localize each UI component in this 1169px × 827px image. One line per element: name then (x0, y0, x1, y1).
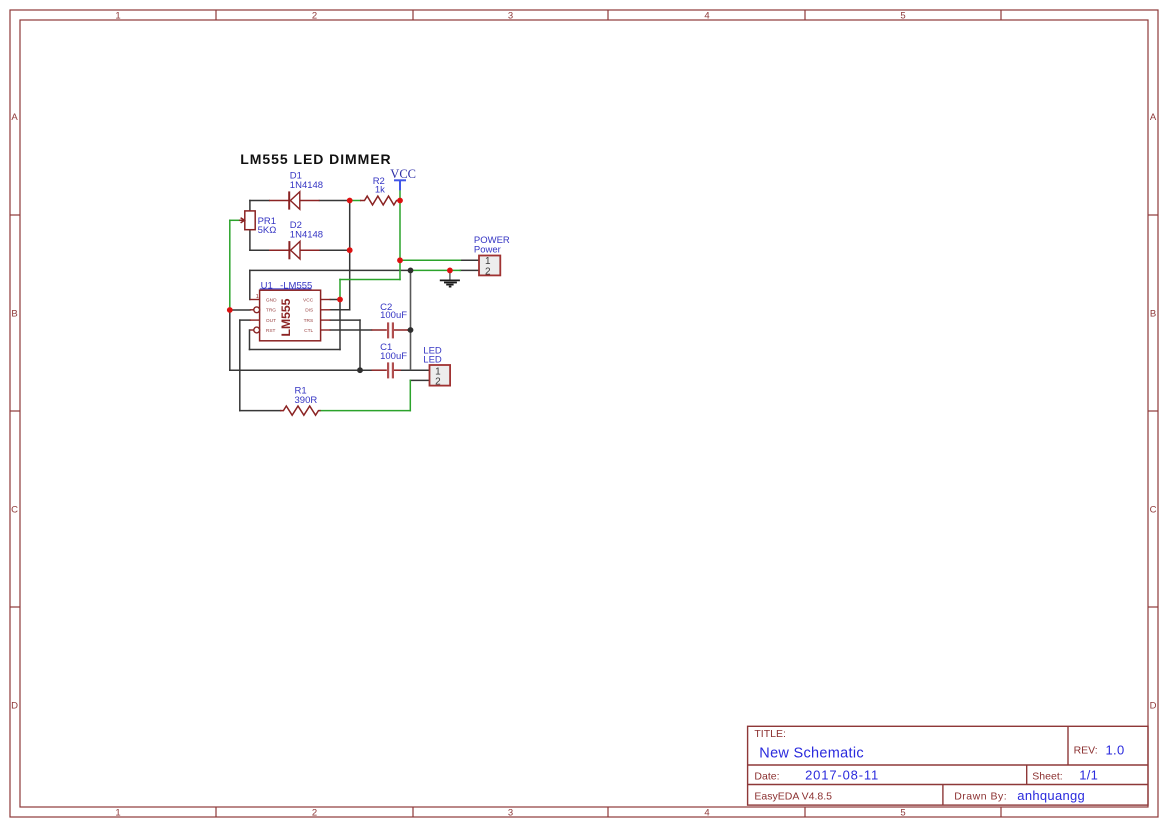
pin TRG stub (inverted) (250, 309, 254, 311)
svg-text:LM555: LM555 (279, 298, 293, 336)
wire OUT (240, 319, 250, 321)
connector LED (430, 365, 451, 387)
svg-text:C: C (11, 505, 18, 516)
component labels blue (258, 170, 510, 406)
wire D2 right to node (320, 249, 350, 251)
capacitor C1 (388, 362, 393, 378)
capacitor C2 (388, 322, 393, 338)
svg-text:2: 2 (312, 808, 317, 819)
svg-text:VCC: VCC (390, 167, 416, 181)
svg-text:3: 3 (508, 11, 513, 22)
wire PR1 top (249, 201, 251, 211)
node TRS-C1 (357, 367, 363, 373)
title block (748, 726, 1148, 805)
svg-text:A: A (11, 112, 18, 123)
svg-text:D: D (1150, 701, 1157, 712)
svg-text:1N4148: 1N4148 (290, 180, 323, 191)
svg-text:1/1: 1/1 (1079, 768, 1098, 783)
svg-text:U1: U1 (261, 281, 273, 292)
svg-text:1N4148: 1N4148 (290, 229, 323, 240)
wire VCC down to U1 (339, 280, 341, 300)
node C2 right (408, 327, 414, 333)
wire VCC horizontal (340, 279, 400, 281)
right ruler ticks (1148, 214, 1158, 216)
svg-text:100uF: 100uF (380, 310, 407, 321)
ground (440, 280, 460, 286)
svg-text:3: 3 (508, 808, 513, 819)
wire VCC vertical (399, 190, 401, 279)
bottom ruler ticks (215, 807, 217, 817)
wire POWER pin1 stub (460, 259, 479, 261)
wire OUT to R1 (240, 410, 281, 412)
node ground (447, 268, 453, 274)
node TRG (227, 307, 233, 313)
pin TRS stub (321, 319, 331, 321)
wire GND row horizontal (250, 269, 411, 271)
svg-text:5: 5 (900, 11, 905, 22)
svg-text:4: 4 (704, 11, 709, 22)
resistor R1 (280, 406, 321, 415)
wire C1 right to LED pin1 (401, 369, 430, 371)
resistor R2 (360, 196, 400, 205)
svg-text:2: 2 (312, 11, 317, 22)
svg-text:A: A (1150, 112, 1157, 123)
svg-text:VCC: VCC (303, 297, 314, 303)
IC U1 LM555 timer (250, 290, 331, 341)
svg-text:1k: 1k (375, 184, 385, 195)
svg-text:GND: GND (266, 297, 277, 303)
potentiometer PR1 (239, 211, 255, 230)
left ruler ticks (10, 214, 20, 216)
wire TRG (230, 309, 250, 311)
wire PR1 wiper vertical (229, 220, 231, 310)
wire DIS (330, 309, 349, 311)
wire R1 right (320, 410, 410, 412)
pin GND stub (250, 299, 260, 301)
svg-text:EasyEDA V4.8.5: EasyEDA V4.8.5 (754, 791, 832, 803)
wire PR1 wiper horizontal (230, 219, 239, 221)
wire OUT vertical (239, 320, 241, 411)
svg-text:TRS: TRS (304, 318, 314, 324)
svg-text:390R: 390R (295, 395, 318, 406)
svg-text:B: B (1150, 309, 1156, 320)
svg-text:Sheet:: Sheet: (1032, 771, 1062, 783)
wire D1 left (250, 200, 269, 202)
connector POWER (479, 256, 500, 278)
node U1 VCC (337, 297, 343, 303)
svg-text:1: 1 (115, 11, 120, 22)
svg-text:Drawn By:: Drawn By: (954, 791, 1007, 803)
ground stem (449, 270, 451, 280)
svg-text:RST: RST (266, 328, 276, 334)
wire POWER pin2 green (411, 269, 461, 271)
node D1-R2 (347, 198, 353, 204)
wire C2 right to node (408, 329, 411, 331)
pin RST stub (inverted) (250, 329, 254, 331)
svg-text:2017-08-11: 2017-08-11 (805, 768, 879, 783)
wire CTL (330, 329, 371, 331)
top ruler ticks (215, 10, 217, 20)
wire D2 left (250, 249, 269, 251)
diode D2 (269, 241, 320, 259)
wire D1 right to node (320, 200, 350, 202)
power flag VCC (394, 180, 406, 190)
pin DIS stub (321, 309, 331, 311)
svg-text:anhquangg: anhquangg (1017, 788, 1085, 803)
svg-text:B: B (11, 309, 17, 320)
wire R2 left (350, 200, 360, 202)
svg-text:2: 2 (435, 376, 441, 387)
wire RST loop down (249, 330, 251, 350)
node D2 (347, 247, 353, 253)
wire VCC pin (330, 299, 340, 301)
svg-text:Date:: Date: (754, 771, 779, 783)
svg-text:LED: LED (423, 354, 442, 365)
svg-text:C: C (1150, 505, 1157, 516)
wire POWER pin1 (400, 259, 460, 261)
wire TRS vertical (359, 320, 361, 370)
green net wires (230, 190, 460, 410)
wire GND branch vertical (410, 271, 412, 370)
svg-text:100uF: 100uF (380, 351, 407, 362)
wire GND pin up (249, 270, 251, 299)
svg-text:TRG: TRG (266, 308, 276, 314)
svg-text:REV:: REV: (1074, 744, 1098, 756)
svg-text:1.0: 1.0 (1106, 742, 1125, 757)
wire RST loop horizontal (250, 349, 341, 351)
node POWER pin1 (397, 257, 403, 263)
svg-text:LM555 LED DIMMER: LM555 LED DIMMER (240, 151, 391, 167)
diode D1 (269, 191, 320, 209)
svg-text:-LM555: -LM555 (280, 281, 312, 292)
svg-text:D: D (11, 701, 18, 712)
wire TRG net vertical (229, 310, 231, 370)
wire TRS (330, 319, 360, 321)
junction dots red (227, 198, 453, 313)
wire TRG net to C1 (230, 369, 372, 371)
svg-text:CTL: CTL (304, 328, 313, 334)
node R2-VCC (397, 198, 403, 204)
svg-text:New Schematic: New Schematic (759, 745, 864, 761)
U1 name underline (260, 288, 312, 290)
pin CTL stub (321, 329, 331, 331)
wire RST loop up to VCC node (339, 300, 341, 350)
svg-text:DIS: DIS (305, 308, 313, 314)
pin OUT stub (250, 319, 260, 321)
svg-text:1: 1 (115, 808, 120, 819)
svg-text:1: 1 (256, 294, 259, 300)
wire PR1 bottom (249, 230, 251, 251)
junction dots black (357, 268, 413, 374)
svg-text:TITLE:: TITLE: (754, 728, 786, 740)
svg-text:OUT: OUT (266, 318, 276, 324)
svg-text:5KΩ: 5KΩ (258, 225, 277, 236)
svg-text:2: 2 (485, 266, 491, 277)
svg-text:4: 4 (704, 808, 709, 819)
wire POWER pin2 stub (460, 269, 479, 271)
wire vertical D1/D2 to DIS (349, 201, 351, 310)
node GND branch (408, 268, 414, 274)
pin VCC stub (321, 299, 331, 301)
svg-text:Power: Power (474, 245, 501, 256)
wire LED pin2 stub (410, 379, 429, 381)
svg-text:5: 5 (900, 808, 905, 819)
wire up to LED pin2 (409, 380, 411, 410)
